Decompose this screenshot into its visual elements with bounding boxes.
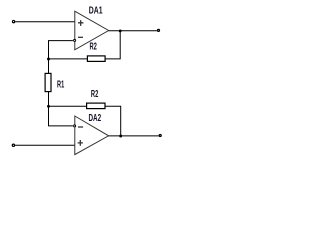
resistor R1 body xyxy=(45,73,51,91)
op-amp DA1 triangle xyxy=(75,11,109,50)
wire: node B to R2 (bottom) left lead xyxy=(49,105,87,107)
node B junction xyxy=(47,105,50,108)
svg-text:R1: R1 xyxy=(57,79,64,90)
resistor R2 top body xyxy=(87,56,105,62)
terminal output 1 (top-right) xyxy=(158,29,160,31)
wire: DA2 output xyxy=(109,135,159,137)
wire: input2 to DA2 non-inverting input xyxy=(15,144,75,146)
terminal input 1 (top-left) xyxy=(12,20,14,22)
op-amp DA1 inverting input circle xyxy=(74,39,76,41)
node A junction xyxy=(47,58,50,61)
svg-text:R2: R2 xyxy=(90,41,98,52)
wire: node A to R2 (top) left lead xyxy=(49,58,88,60)
op-amp DA2 inverting input circle xyxy=(74,125,76,127)
node DA2 output junction xyxy=(119,135,122,138)
svg-text:R2: R2 xyxy=(91,89,99,100)
svg-text:DA1: DA1 xyxy=(89,5,103,16)
wire: node B down to DA2 inverting input xyxy=(49,106,73,126)
wire: R1 top lead xyxy=(48,59,50,73)
resistor R2 bottom body xyxy=(87,103,105,109)
op-amp DA2 minus sign xyxy=(78,126,83,128)
wire: DA1 output xyxy=(109,30,157,32)
node DA1 output junction xyxy=(119,29,122,32)
wire: R2 (top) right lead up to DA1 output xyxy=(105,31,120,59)
terminal input 2 (bottom-left) xyxy=(12,144,14,146)
op-amp DA2 plus sign xyxy=(78,140,83,146)
op-amp DA2 triangle xyxy=(75,116,109,155)
wire: R2 (bottom) right lead down to DA2 output xyxy=(105,106,121,136)
op-amp DA1 plus sign xyxy=(78,20,83,26)
op-amp DA1 minus sign xyxy=(78,36,83,38)
wire: feedback to DA1 inverting input xyxy=(49,41,73,59)
svg-text:DA2: DA2 xyxy=(89,113,102,124)
terminal output 2 (bottom-right) xyxy=(159,135,161,137)
wire: input1 to DA1 non-inverting input xyxy=(15,21,74,23)
wire: R1 bottom lead xyxy=(48,92,50,107)
